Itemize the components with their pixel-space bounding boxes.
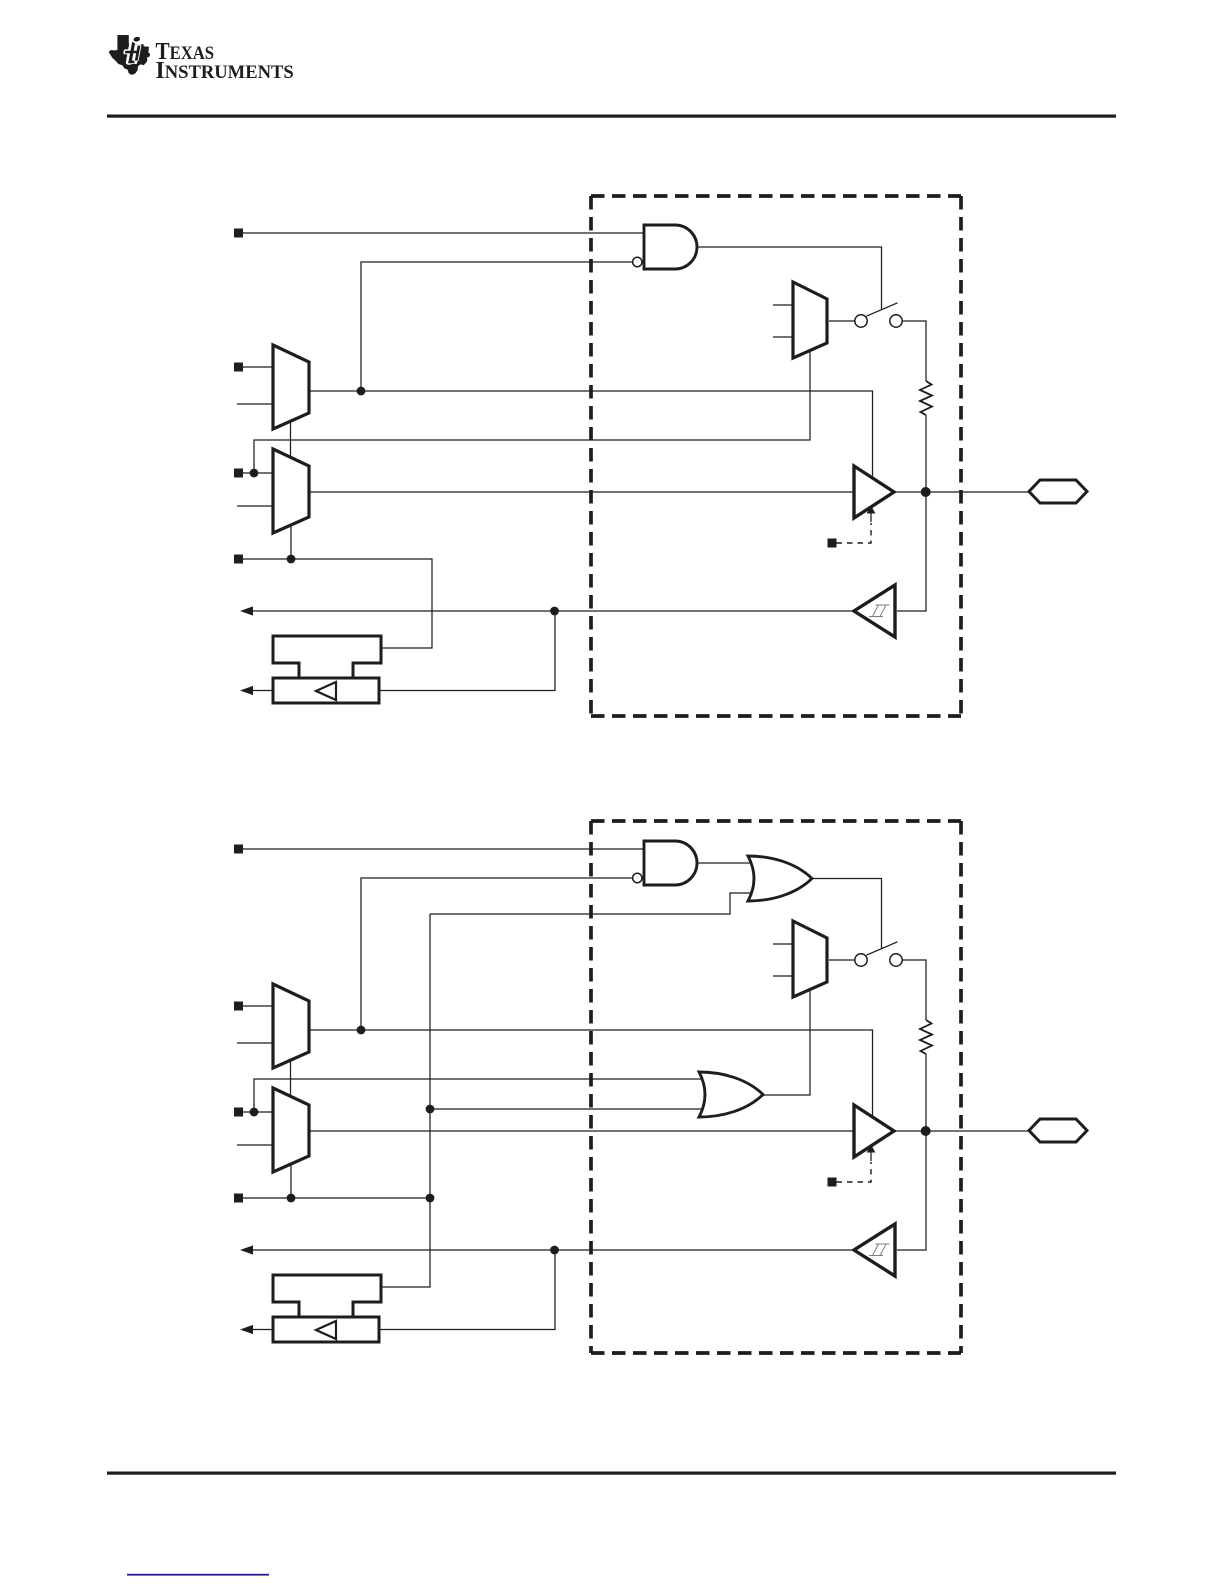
wire mux MB3 to switch [829, 959, 855, 961]
wire switch to resistor [902, 321, 926, 381]
wire schmitt output to pin5B [246, 1249, 854, 1251]
tri-state output buffer UA1 [854, 466, 894, 518]
power-up control block B (bridge) [273, 1275, 381, 1317]
mux MB3 (inside IC) [793, 921, 827, 997]
wire pin6A to latch [246, 690, 273, 692]
junction node pin3A [250, 469, 259, 478]
latch block B with buffer symbol [273, 1317, 379, 1342]
wire mux MB2 output to buffer [309, 1130, 854, 1132]
wire OE branch to OR G B2 input [430, 893, 752, 914]
drive-strength control pin (dashed) [828, 539, 837, 548]
stub input of mux MA2 [237, 505, 273, 507]
wire pin3 net to mux M A3 select [254, 352, 810, 474]
junction node on schmitt output [550, 607, 559, 616]
switch blade [866, 303, 897, 316]
wire pin2A to mux [243, 366, 273, 368]
wire resistor to output node [925, 1054, 927, 1131]
power-up control block A (bridge) [273, 636, 381, 678]
output arrow pin 6A [240, 686, 253, 695]
output node junction [921, 1126, 931, 1136]
wire pin4 OE net [243, 559, 432, 648]
wire pin4 OE net [243, 1197, 430, 1199]
wire mux MB1 output [309, 1030, 873, 1117]
wire OR G B3 output to mux M B3 select [763, 991, 810, 1096]
select wire between muxes [290, 422, 292, 457]
latch block A with buffer symbol [273, 678, 379, 703]
TI logo Texas-map bug [109, 35, 151, 75]
header rule [107, 115, 1116, 118]
wire switch to resistor [902, 960, 926, 1020]
input pin 4B OE (square) [234, 1194, 243, 1203]
input pin 1B (square) [234, 845, 243, 854]
wire mux MA2 output to buffer [309, 491, 854, 493]
AND gate GA1 [644, 225, 697, 269]
stub input b of mux MB3 [773, 975, 793, 977]
footer hyperlink underline [127, 1574, 269, 1576]
junction node OE vertical [426, 1194, 435, 1203]
wire buffer output to pad [894, 491, 1029, 493]
input pin 3A (square) [234, 469, 243, 478]
inverting bubble on AND lower input [633, 257, 642, 266]
mux MA1 [273, 345, 309, 429]
mux MA2 [273, 449, 309, 533]
select wire mux MA2 [290, 525, 292, 559]
stub input of mux MB2 [237, 1144, 273, 1146]
switch blade [866, 942, 897, 955]
mux MB1 [273, 984, 309, 1068]
output arrow pin 5B [240, 1245, 253, 1254]
stub input a of mux MB3 [773, 943, 793, 945]
output node junction [921, 487, 931, 497]
input pin 1A (square) [234, 229, 243, 238]
wire OR G B2 output to switch blade [812, 879, 882, 949]
wire buffer output to pad [894, 1130, 1029, 1132]
select wire mux MB2 [290, 1164, 292, 1198]
stub input of mux MB1 [237, 1042, 273, 1044]
stub input a of mux MA3 [773, 304, 793, 306]
wire mux MA3 to switch [829, 320, 855, 322]
input pin 2B (square) [234, 1002, 243, 1011]
wire pin1B to AND input [243, 848, 645, 850]
schmitt-trigger input buffer UB2 [854, 1224, 895, 1276]
junction node on OE wire [287, 1194, 296, 1203]
drive-strength control pin (dashed) [828, 1178, 837, 1187]
switch contact circles [855, 315, 867, 327]
OR gate G B2 [748, 856, 812, 901]
wire latch input from schmitt node [379, 1250, 555, 1330]
tri-state output buffer UB1 [854, 1105, 894, 1157]
output arrow pin 6B [240, 1325, 253, 1334]
wire pin3A to mux [243, 472, 273, 474]
wire schmitt output to pin5A [246, 610, 854, 612]
wire pin6B to latch [246, 1329, 273, 1331]
select wire between muxes [290, 1061, 292, 1096]
wire from mux node up to AND inverted input [361, 262, 633, 391]
stub input b of mux MA3 [773, 336, 793, 338]
switch contact circles [855, 954, 867, 966]
AND gate GB1 [644, 841, 697, 885]
I/O pad A (hexagon) [1029, 480, 1087, 503]
junction node on OE wire [287, 555, 296, 564]
resistor RB (bus-hold) [920, 1020, 932, 1054]
dashed IC boundary box B [591, 821, 961, 1353]
stub input of mux MA1 [237, 403, 273, 405]
wire latch input from schmitt node [379, 611, 555, 691]
OR gate G B3 [699, 1072, 763, 1117]
inverting bubble on AND lower input [633, 873, 642, 882]
wire AND output to switch blade [697, 247, 882, 310]
wire resistor to output node [925, 415, 927, 492]
input pin 2A (square) [234, 363, 243, 372]
wire output node to schmitt input [897, 1131, 926, 1250]
svg-text:INSTRUMENTS: INSTRUMENTS [156, 57, 294, 84]
I/O pad B (hexagon) [1029, 1119, 1087, 1142]
footer rule [107, 1472, 1116, 1475]
wire pin1A to AND input [243, 232, 645, 234]
wire from mux node up to AND inverted input [361, 878, 633, 1030]
wire output node to schmitt input [897, 492, 926, 611]
junction node OE / OR input [426, 1105, 435, 1114]
output arrow pin 5A [240, 606, 253, 615]
input pin 4A OE (square) [234, 555, 243, 564]
resistor RA (bus-hold) [920, 381, 932, 415]
wire pin2B to mux [243, 1005, 273, 1007]
wire mux MA1 output [309, 391, 873, 478]
wire OE branch to OR G B3 lower input [430, 1108, 703, 1110]
junction node on schmitt output [550, 1246, 559, 1255]
OE vertical distribution wire [381, 914, 430, 1287]
wire pin3 net to OR G B3 input [254, 1079, 701, 1112]
input pin 3B (square) [234, 1108, 243, 1117]
junction node pin3B [250, 1108, 259, 1117]
mux MB2 [273, 1088, 309, 1172]
junction node on mux output [357, 387, 366, 396]
mux MA3 (inside IC) [793, 282, 827, 358]
junction node on mux output [357, 1026, 366, 1035]
wire AND output to OR gate [697, 862, 752, 864]
schmitt-trigger input buffer UA2 [854, 585, 895, 637]
dashed IC boundary box A [591, 196, 961, 716]
wire pin3B to mux [243, 1111, 273, 1113]
